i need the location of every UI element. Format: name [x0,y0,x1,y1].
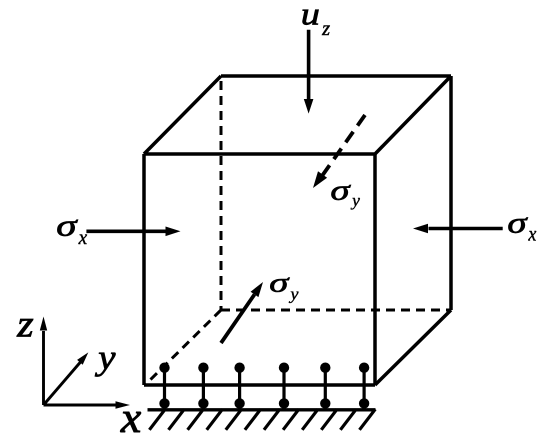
svg-text:z: z [16,302,34,345]
svg-text:σ: σ [507,206,528,240]
svg-text:x: x [120,393,141,442]
svg-text:z: z [321,18,330,40]
svg-text:σ: σ [330,174,352,206]
svg-text:u: u [301,0,320,32]
svg-text:σ: σ [56,209,78,243]
svg-text:x: x [78,226,88,249]
svg-text:x: x [527,224,537,246]
svg-text:σ: σ [269,267,290,298]
